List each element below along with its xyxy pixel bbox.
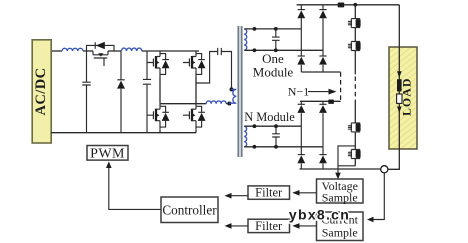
diode D12 <box>322 5 324 56</box>
wire secondary1 bottom <box>244 49 323 51</box>
wire left leg mid <box>159 77 161 104</box>
diode D0 loop over switch <box>87 45 115 51</box>
capacitor Co4 <box>348 150 361 159</box>
transistor Q0 (series switch) <box>93 51 108 55</box>
block AC/DC <box>32 40 51 143</box>
svg-text:Sample: Sample <box>322 226 358 240</box>
load element filled <box>397 79 402 91</box>
fuse F1 <box>338 3 345 8</box>
arrow voltage sample to filter1 <box>300 192 317 194</box>
block Filter 1 <box>248 186 290 199</box>
wire controller to PWM <box>109 168 161 210</box>
dashed chain (omitted) <box>354 77 356 103</box>
inductor L3 (resonant) <box>206 101 226 104</box>
capacitor Co1 <box>348 19 361 28</box>
block Current Sample <box>317 212 364 241</box>
transistor Q2 (top-right cell) <box>183 51 206 77</box>
transistor Q3 (bottom-left cell) <box>147 104 170 130</box>
wire <box>108 50 121 52</box>
wire top output of AC/DC <box>52 50 62 52</box>
diode D24 <box>319 155 327 164</box>
capacitor C2 branch <box>146 51 148 133</box>
block Voltage Sample <box>317 179 364 203</box>
wire <box>83 50 93 52</box>
wire chain <box>354 5 356 19</box>
wire legs to bottom rail <box>160 130 196 133</box>
svg-text:Filter: Filter <box>255 186 283 200</box>
tap wire to voltage sample <box>338 146 355 173</box>
wire through load <box>388 5 399 170</box>
node primary top <box>230 87 234 91</box>
wire to primary bottom <box>226 103 229 105</box>
transistor Q1 (top-left cell) <box>147 51 170 77</box>
wire <box>354 158 356 165</box>
bottom rail to load <box>300 168 381 170</box>
wire sensor to current sample <box>374 173 385 220</box>
transistor Q4 (bottom-right cell) <box>183 104 206 130</box>
bottom rail <box>51 132 196 134</box>
wire <box>354 102 356 123</box>
capacitor Cm1 <box>275 29 277 50</box>
wire secondary1 top <box>244 28 301 30</box>
wire cap to primary top <box>222 52 232 90</box>
arrow down <box>397 71 402 78</box>
diode D1 branch <box>120 51 122 133</box>
wire phase B to resonant cap <box>196 52 217 84</box>
current sensor circle <box>381 166 388 173</box>
capacitor C1 branch <box>86 51 88 133</box>
wire secondary2 bottom <box>244 146 323 148</box>
inductor L1 <box>62 48 83 51</box>
capacitor Co2 <box>348 42 361 51</box>
diode D0 <box>94 42 96 49</box>
diode D21 <box>300 101 302 154</box>
svg-text:Sample: Sample <box>322 190 358 204</box>
arrowhead into voltage sample <box>335 173 341 180</box>
wire right leg mid <box>195 77 197 104</box>
primary winding <box>229 89 236 103</box>
load element open <box>397 94 402 103</box>
transformer core <box>238 26 241 157</box>
svg-text:Module: Module <box>253 65 294 80</box>
wire secondary2 top <box>244 125 301 127</box>
diode D22 <box>322 101 324 154</box>
svg-text:PWM: PWM <box>90 146 125 161</box>
wire phase node to resonant inductor <box>160 103 206 105</box>
node top rail / chain <box>353 3 357 7</box>
block Filter 2 <box>248 219 290 232</box>
svg-text:N Module: N Module <box>244 110 295 124</box>
bottom rail module 1 <box>301 71 340 73</box>
wire <box>354 50 356 74</box>
arrow down <box>397 107 402 113</box>
arrow current sample to filter2 <box>300 225 317 227</box>
node dots <box>253 27 257 31</box>
inductor L2 <box>121 48 141 51</box>
wire <box>354 28 356 42</box>
top rail module N <box>300 100 341 102</box>
block LOAD <box>389 47 417 149</box>
capacitor C3 (resonant) <box>218 48 222 55</box>
arrow filter1 to controller <box>232 195 249 197</box>
arrow filter2 to controller <box>232 225 249 227</box>
fuse F2 <box>328 100 334 104</box>
block Controller <box>161 197 218 223</box>
svg-text:ybx8.cn: ybx8.cn <box>289 206 350 222</box>
svg-text:AC/DC: AC/DC <box>33 68 49 116</box>
capacitor Co3 <box>348 123 361 132</box>
dashed link to omitted modules <box>340 72 342 101</box>
wire top rail to bridge <box>142 50 199 52</box>
diode D14 <box>319 56 327 65</box>
node dots <box>253 124 257 128</box>
diode D11 <box>300 5 302 56</box>
top rail module 1 <box>297 4 400 6</box>
capacitor Cm2 <box>275 126 277 147</box>
svg-text:N−1: N−1 <box>288 84 309 98</box>
svg-text:Controller: Controller <box>162 202 217 217</box>
secondary winding 1 <box>244 29 247 50</box>
diode D23 <box>297 155 305 164</box>
svg-text:Filter: Filter <box>255 219 283 233</box>
block PWM <box>87 146 128 161</box>
wire <box>354 132 356 150</box>
diode D13 <box>297 56 305 65</box>
secondary winding 2 <box>244 126 246 147</box>
node primary bottom <box>227 102 231 106</box>
